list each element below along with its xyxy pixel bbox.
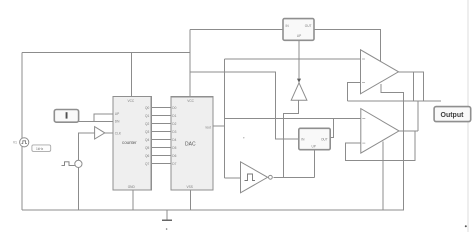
wire left vertical (21, 53, 23, 210)
wire data bus Q0-D0 (151, 107, 171, 109)
wire data bus Q1-D1 (151, 115, 171, 117)
wire ground rail (22, 209, 404, 211)
stray dot bottom right (465, 225, 467, 227)
svg-text:VCC: VCC (187, 99, 194, 103)
svg-text:Output: Output (441, 112, 465, 119)
svg-text:D7: D7 (172, 162, 176, 166)
clock source V1 (20, 138, 29, 147)
wire DAC VCC vertical (189, 30, 191, 97)
wire data bus Q5-D5 (151, 147, 171, 149)
wire inverter output net (274, 176, 315, 178)
DAC U0 (171, 97, 213, 190)
svg-text:D0: D0 (172, 106, 176, 110)
schmitt inverter U7 (241, 162, 268, 193)
wire I box to counter pin (79, 120, 113, 122)
wire to op-amp U6 +input (225, 118, 361, 120)
svg-text:VSS: VSS (187, 185, 193, 189)
wire U6 output riser (417, 101, 419, 131)
counter U1 (113, 97, 151, 191)
potentiometer U3 (283, 19, 314, 41)
wire op-amp U5 V- to ground (381, 84, 404, 210)
svg-text:Q1: Q1 (145, 114, 149, 118)
wire data bus Q2-D2 (151, 123, 171, 125)
wire to inverter input (225, 177, 241, 179)
svg-text:1kHz: 1kHz (36, 147, 44, 151)
wire U5 feedback drop (412, 72, 414, 101)
op-amp U5 (361, 50, 399, 94)
wire counter VCC drop (131, 53, 133, 97)
svg-text:UP: UP (297, 34, 301, 38)
wire pot U3 right to op-amp U5 V+ (314, 30, 381, 62)
svg-text:Q3: Q3 (145, 130, 149, 134)
stray dot (243, 137, 244, 138)
wire VCC branch to pot U4 left pin (190, 72, 299, 139)
svg-text:CLK: CLK (115, 131, 122, 135)
svg-text:DAC: DAC (185, 142, 196, 148)
wire to pot U3 left pin (190, 29, 283, 31)
wire to op-amp U5 +input (225, 58, 361, 60)
svg-text:D6: D6 (172, 154, 176, 158)
wire counter GND drop (132, 190, 134, 210)
square wave source V2 (75, 160, 82, 167)
svg-text:counter: counter (122, 140, 137, 145)
wire VCC top rail (22, 52, 190, 54)
svg-text:D4: D4 (172, 138, 176, 142)
svg-text:OUT: OUT (305, 24, 312, 28)
svg-text:Q0: Q0 (145, 106, 149, 110)
svg-text:DN: DN (115, 120, 120, 124)
arrow on buffer wire (297, 79, 301, 83)
wire riser to buffer input (284, 100, 299, 177)
wire U6 feedback loop (345, 131, 415, 161)
wire DAC VSS drop (190, 190, 192, 210)
wire op-amp U5 -input (348, 82, 361, 101)
wire square source to op-amp U2 input (78, 133, 94, 210)
svg-text:V1: V1 (13, 141, 17, 145)
svg-text:Iout: Iout (205, 125, 210, 129)
wire buffer output to pot U3 bottom pin (298, 40, 300, 83)
svg-text:Q4: Q4 (145, 138, 149, 142)
svg-text:VCC: VCC (128, 99, 135, 103)
svg-text:D1: D1 (172, 114, 176, 118)
wire DAC Iout (213, 125, 225, 127)
wire op-amp U5 output (399, 72, 424, 101)
label box 1kHz (32, 145, 51, 152)
svg-text:OUT: OUT (321, 137, 328, 141)
ground (166, 210, 168, 220)
wire data bus Q7-D7 (151, 163, 171, 165)
buffer amp A1 (291, 83, 307, 100)
wire pot U4 right pin riser (330, 119, 333, 138)
potentiometer U4 (299, 128, 330, 149)
frame right edge (467, 0, 469, 232)
I box (54, 110, 78, 123)
wire pot U4 bottom pin drop (313, 150, 315, 178)
wire op-amp U2 output to counter CLK (105, 132, 114, 134)
svg-text:Q5: Q5 (145, 146, 149, 150)
wire feedback bus y101 (348, 100, 442, 102)
Output box (434, 107, 471, 122)
svg-text:Q2: Q2 (145, 122, 149, 126)
wire counter pin1 jog (94, 114, 113, 122)
wire data bus Q6-D6 (151, 155, 171, 157)
svg-text:Q7: Q7 (145, 162, 149, 166)
wire data bus Q3-D3 (151, 131, 171, 133)
svg-text:UP: UP (312, 145, 316, 149)
svg-text:D2: D2 (172, 122, 176, 126)
node DAC output vertical (224, 59, 226, 178)
wire op-amp U6 V- to ground (382, 142, 384, 211)
svg-text:UP: UP (115, 112, 119, 116)
svg-text:Q6: Q6 (145, 154, 149, 158)
op-amp U2 clock buffer (95, 127, 105, 139)
wire data bus Q4-D4 (151, 139, 171, 141)
op-amp U6 (361, 109, 399, 154)
svg-text:D3: D3 (172, 130, 176, 134)
svg-text:GND: GND (128, 185, 136, 189)
wire op-amp U6 output (399, 130, 418, 132)
svg-text:D5: D5 (172, 146, 176, 150)
